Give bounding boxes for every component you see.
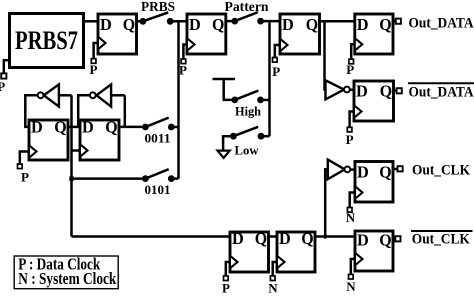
svg-text:P: P: [272, 64, 280, 79]
svg-text:Q: Q: [105, 117, 118, 136]
svg-text:P: P: [90, 62, 98, 77]
svg-text:N : System Clock: N : System Clock: [18, 269, 117, 288]
svg-text:P: P: [0, 79, 5, 94]
wire FF-A Q to FF-B D: [68, 126, 80, 129]
svg-text:Pattern: Pattern: [225, 0, 269, 15]
svg-text:Out_DATA: Out_DATA: [409, 85, 474, 101]
wire FF-B clock from FF-A Q: [72, 149, 81, 152]
svg-text:P: P: [222, 281, 230, 295]
svg-text:Q: Q: [54, 117, 67, 136]
flip-flop FF8 (clock retimer, P): [222, 229, 268, 296]
svg-text:D: D: [31, 117, 43, 136]
svg-text:D: D: [357, 15, 369, 34]
svg-text:P: P: [346, 62, 354, 77]
flip-flop FF-A (divide-by-2, 0101 gen): [18, 117, 69, 184]
wire FF2 Q to Pattern switch: [226, 20, 232, 23]
svg-text:0101: 0101: [145, 183, 171, 197]
inverter U3 (FF-B feedback) (feedback, output bubble on left): [90, 84, 111, 106]
svg-text:D: D: [357, 230, 369, 249]
junction 0101 tap: [69, 176, 73, 180]
svg-text:Q: Q: [301, 229, 314, 248]
flip-flop FF7 (Out_CLK-bar driver): [346, 230, 393, 293]
ground symbol: [218, 151, 230, 158]
wire FF1 Q to PRBS switch: [137, 20, 144, 23]
svg-text:Out_DATA: Out_DATA: [409, 15, 474, 31]
svg-text:Low: Low: [235, 143, 260, 158]
wire node N vertical (down to High/Low switches): [268, 21, 271, 136]
PRBS7 generator block: [10, 14, 84, 68]
wire FF-B Q feedback vertical: [124, 95, 127, 127]
svg-text:Q: Q: [212, 15, 225, 34]
svg-text:D: D: [282, 15, 294, 34]
wire Low switch to ground: [223, 136, 233, 150]
wire FF5 Q to Out_DATA-bar terminal: [394, 89, 397, 92]
wire FF-B Q to 0011 switch: [119, 126, 142, 129]
legend box: [14, 255, 118, 289]
flip-flop FF2 (retimer): [179, 14, 226, 78]
wire FF9 Q to FF7 D: [315, 235, 355, 238]
wire High switch to node N: [261, 99, 270, 102]
wire U4 out to FF6 D: [350, 168, 355, 171]
svg-text:Q: Q: [380, 81, 393, 100]
wire U3 input from FF-B Q: [111, 94, 125, 97]
wire Pattern switch to FF3 D (node N): [261, 20, 280, 23]
terminal Out_DATA: [396, 19, 401, 24]
wire FF-A Q vertical (to FF-B clock, 0101 switch, clock path): [70, 95, 73, 236]
inverter U2 (FF-A feedback) (feedback, output bubble on left): [38, 84, 59, 106]
svg-text:Q: Q: [306, 15, 319, 34]
wire FF3 Q to FF4 D: [320, 20, 355, 23]
wire 0011 switch to node M: [175, 126, 179, 129]
switch Pattern select: [231, 12, 264, 24]
flip-flop FF4 (Out_DATA driver): [346, 14, 393, 77]
svg-text:P: P: [21, 170, 29, 185]
svg-text:PRBS7: PRBS7: [15, 26, 78, 55]
wire FF4 Q to Out_DATA terminal: [393, 20, 396, 23]
wire U2 output to FF-A D: [25, 95, 37, 127]
svg-text:D: D: [356, 81, 368, 100]
switch High: [231, 91, 263, 104]
inverter U4 (clock inversion) (output bubble on right): [328, 160, 351, 180]
svg-text:High: High: [235, 104, 262, 119]
terminal PRBS7 clock P: [1, 73, 6, 78]
flip-flop FF5 (Out_DATA-bar driver): [346, 81, 394, 147]
svg-text:D: D: [232, 229, 244, 248]
terminal Out_CLK: [398, 166, 403, 171]
svg-text:N: N: [268, 281, 278, 295]
svg-text:D: D: [189, 15, 201, 34]
wire FF8 Q to FF9 D: [269, 235, 278, 238]
svg-text:0011: 0011: [145, 132, 171, 146]
switch Low: [230, 127, 264, 140]
wire FF6 Q to Out_CLK terminal: [393, 168, 397, 171]
svg-text:Q: Q: [255, 229, 268, 248]
svg-text:N: N: [346, 210, 356, 225]
wire clock node up to CLK inverter: [325, 169, 328, 236]
flip-flop FF1 (PRBS retimer): [90, 14, 137, 77]
wire 0101 wire to switch: [72, 177, 143, 180]
svg-text:Q: Q: [379, 230, 392, 249]
flip-flop FF3 (retimer): [272, 14, 319, 79]
svg-text:Q: Q: [379, 162, 392, 181]
svg-text:P: P: [179, 63, 187, 78]
svg-text:Out_CLK: Out_CLK: [412, 163, 470, 179]
wire PRBS7 out to FF1 D: [84, 20, 99, 23]
svg-text:PRBS: PRBS: [141, 0, 175, 15]
wire U3 output to FF-B D: [78, 95, 90, 127]
wire PRBS7 clock stub: [4, 60, 10, 73]
flip-flop FF9 (clock retimer, N): [268, 229, 315, 296]
VDD supply bar (High): [213, 79, 236, 100]
wire 0101 switch to node M: [175, 177, 179, 180]
svg-text:N: N: [346, 279, 356, 294]
svg-text:D: D: [279, 229, 291, 248]
svg-text:Out_CLK: Out_CLK: [412, 232, 470, 248]
svg-text:P: P: [346, 132, 354, 147]
wire half-rate clock to FF8 D: [72, 235, 231, 238]
svg-text:D: D: [82, 117, 94, 136]
switch 0011 select: [142, 118, 175, 131]
wire U2 input from FF-A Q: [59, 94, 72, 97]
wire FF7 Q to Out_CLK-bar terminal: [393, 238, 395, 241]
svg-text:D: D: [357, 162, 369, 181]
flip-flop FF6 (Out_CLK driver): [346, 162, 393, 226]
flip-flop FF-B (divide-by-4, 0011 gen): [80, 117, 119, 160]
wire PRBS switch to FF2 D (node M): [170, 20, 187, 23]
switch PRBS select: [140, 12, 174, 24]
svg-text:Q: Q: [123, 15, 136, 34]
wire FF3 Q branch down to DATA inverter: [325, 21, 327, 89]
switch 0101 select: [142, 169, 175, 182]
junction clock node: [323, 234, 327, 238]
wire U1 out to FF5 D: [350, 89, 354, 92]
label Out_DATA-bar overline: [408, 82, 474, 84]
wire Low switch to node N: [261, 135, 270, 138]
terminal Out_DATA-bar: [397, 88, 402, 93]
label Out_CLK-bar overline: [411, 230, 473, 232]
wire mux vertical (node M down to pattern switches): [177, 21, 180, 178]
terminal Out_CLK-bar: [395, 236, 400, 241]
inverter U1 (data inversion) (output bubble on right): [326, 80, 350, 99]
svg-text:D: D: [100, 15, 112, 34]
svg-text:Q: Q: [379, 15, 392, 34]
